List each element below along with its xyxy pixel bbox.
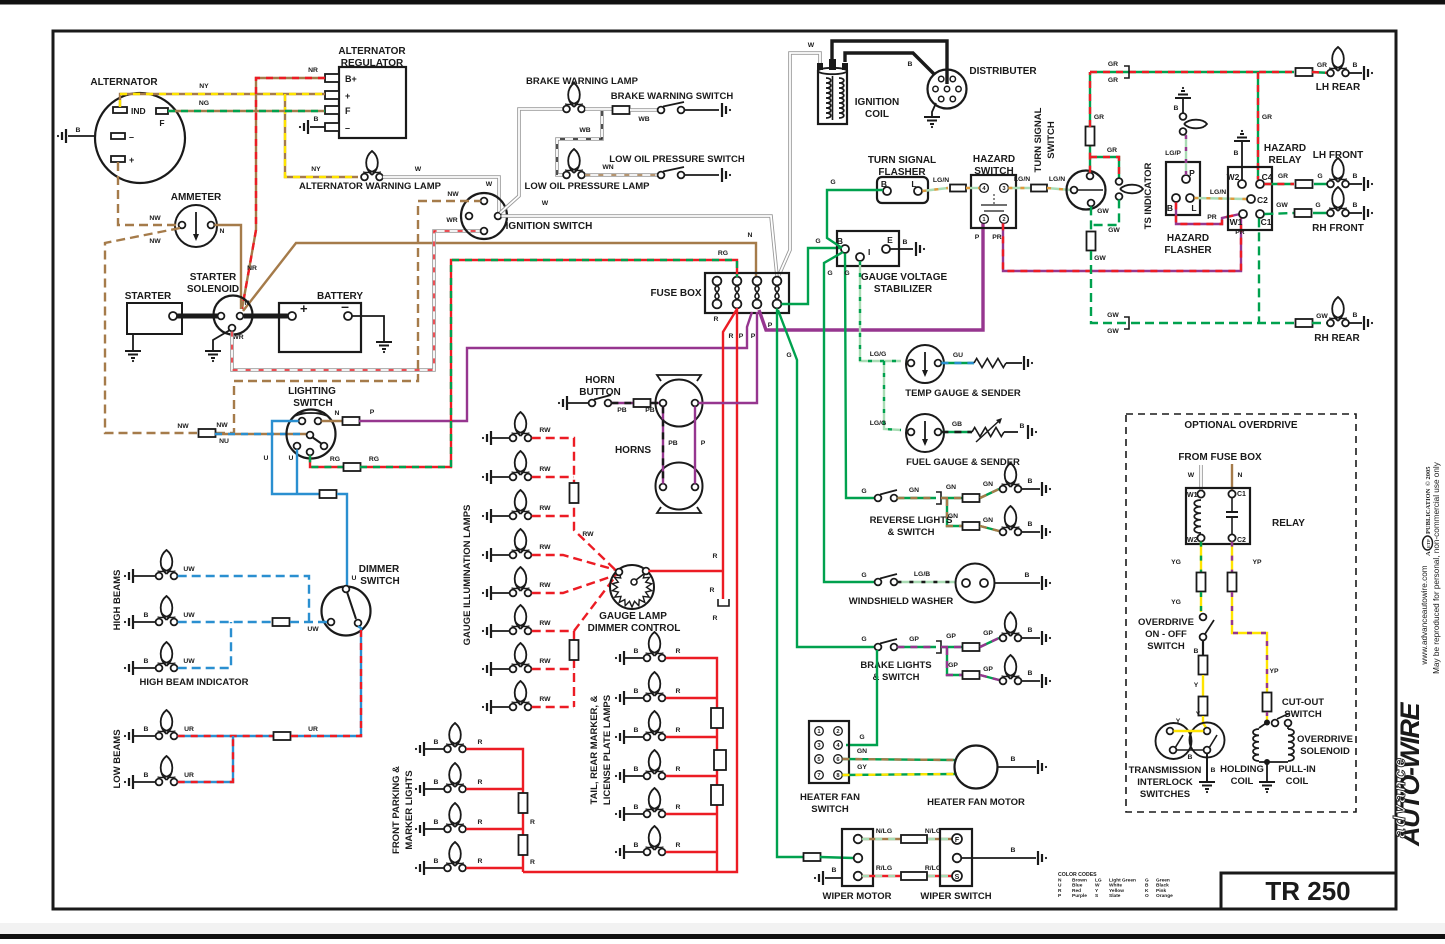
svg-text:R: R — [478, 739, 483, 746]
svg-text:GR: GR — [1108, 61, 1118, 68]
svg-text:LOW OIL PRESSURE LAMP: LOW OIL PRESSURE LAMP — [525, 181, 651, 192]
svg-text:COIL: COIL — [865, 109, 889, 120]
svg-text:SWITCH: SWITCH — [1284, 709, 1322, 720]
svg-text:LG/N: LG/N — [1014, 176, 1030, 183]
svg-text:HAZARD: HAZARD — [1167, 233, 1209, 244]
wire RG to fuse 2 — [360, 260, 737, 467]
svg-text:B: B — [1188, 754, 1193, 761]
svg-text:CUT-OUT: CUT-OUT — [1282, 697, 1324, 708]
svg-text:UW: UW — [183, 658, 195, 665]
svg-text:RG: RG — [369, 456, 379, 463]
svg-text:MARKER LIGHTS: MARKER LIGHTS — [404, 770, 415, 849]
svg-text:HORNS: HORNS — [615, 445, 651, 456]
gauge illumination lamp 5 — [487, 586, 491, 600]
publication note — [1423, 466, 1433, 556]
svg-text:RW: RW — [539, 505, 551, 512]
svg-text:WB: WB — [579, 127, 590, 134]
wire GN switch to lamps — [897, 497, 936, 499]
GP lamp 2 — [1005, 655, 1017, 679]
svg-text:F: F — [159, 118, 164, 128]
svg-text:GN: GN — [983, 481, 993, 488]
GP lamp 1 — [1005, 612, 1017, 636]
svg-text:G: G — [815, 238, 820, 245]
low beam lamp 2 — [129, 775, 133, 789]
svg-text:B: B — [1028, 627, 1033, 634]
svg-text:B: B — [634, 727, 639, 734]
hazard flasher — [1166, 162, 1200, 215]
svg-text:LG/N: LG/N — [933, 177, 949, 184]
wire R fuse 2 to dimmer control branch — [723, 309, 737, 599]
svg-text:P: P — [751, 333, 756, 340]
svg-text:R: R — [713, 615, 718, 622]
svg-text:B: B — [1167, 203, 1173, 213]
svg-text:TAIL, REAR MARKER, &: TAIL, REAR MARKER, & — [589, 695, 600, 804]
svg-text:Slate: Slate — [1109, 893, 1121, 899]
svg-text:C1: C1 — [1261, 217, 1272, 227]
svg-text:W2: W2 — [1187, 537, 1198, 544]
svg-text:F: F — [955, 837, 960, 844]
svg-text:N/LG: N/LG — [876, 828, 892, 835]
svg-text:GAUGE ILLUMINATION LAMPS: GAUGE ILLUMINATION LAMPS — [462, 505, 473, 646]
svg-text:RG: RG — [330, 456, 340, 463]
wire GR branch to TS indicator — [1090, 157, 1119, 178]
high beam lamp 1 — [129, 569, 133, 583]
wire RW lower bus to dimmer control — [532, 575, 617, 631]
connector on tail bus 1 — [711, 708, 723, 728]
svg-text:COLOR CODES: COLOR CODES — [1058, 872, 1097, 878]
svg-text:B: B — [1028, 521, 1033, 528]
GN lamp 1 — [1005, 463, 1017, 487]
svg-text:RW: RW — [539, 620, 551, 627]
cut-out switch — [1266, 712, 1268, 721]
svg-text:ETP: ETP — [1426, 539, 1431, 548]
fuel gauge — [906, 414, 944, 452]
svg-text:HORN: HORN — [585, 375, 614, 386]
brake warning switch — [663, 102, 684, 107]
wire R/LG wiper motor to switch — [862, 875, 900, 877]
alternator minus terminal — [111, 133, 125, 139]
svg-text:PB: PB — [617, 407, 627, 414]
hazard switch — [971, 175, 1016, 228]
wire YG relay W2 down to on-off switch — [1200, 542, 1202, 573]
svg-text:UR: UR — [184, 772, 194, 779]
svg-text:NY: NY — [199, 83, 209, 90]
svg-text:SWITCH: SWITCH — [811, 804, 849, 815]
svg-text:B: B — [434, 779, 439, 786]
alternator warning lamp — [366, 151, 378, 175]
svg-text:R/LG: R/LG — [925, 865, 941, 872]
wire WR solenoid to ignition switch — [232, 231, 481, 370]
wire R dimmer control output — [648, 570, 723, 572]
svg-text:R: R — [729, 333, 734, 340]
gauge illumination lamp 3 — [487, 509, 491, 523]
regulator ground wire B — [310, 126, 325, 128]
low oil pressure lamp — [568, 149, 580, 173]
svg-text:BRAKE WARNING LAMP: BRAKE WARNING LAMP — [526, 76, 639, 87]
svg-text:WR: WR — [232, 334, 243, 341]
svg-text:GAUGE VOLTAGE: GAUGE VOLTAGE — [861, 272, 948, 283]
svg-text:FROM FUSE BOX: FROM FUSE BOX — [1178, 452, 1262, 463]
svg-text:R: R — [478, 779, 483, 786]
svg-text:R: R — [478, 819, 483, 826]
wire N from fuse box to relay — [1231, 464, 1233, 490]
svg-text:W: W — [808, 42, 815, 49]
svg-text:R/LG: R/LG — [876, 865, 892, 872]
wire G stabilizer to washer switch — [824, 252, 875, 582]
alternator F terminal — [156, 108, 168, 114]
wire GW relay C1 to RH front — [1264, 213, 1294, 214]
wire GW TS indicator down — [1091, 199, 1119, 225]
front parking lamp 2 — [420, 782, 424, 796]
front parking lamp 4 — [420, 861, 424, 875]
svg-text:ON - OFF: ON - OFF — [1145, 629, 1187, 640]
svg-text:–: – — [345, 123, 350, 133]
svg-text:R: R — [676, 727, 681, 734]
svg-text:NG: NG — [199, 100, 209, 107]
wiper switch — [940, 829, 972, 886]
bracket connector — [718, 599, 729, 606]
temp sender resistor — [974, 359, 1006, 368]
svg-text:Red: Red — [1072, 888, 1081, 894]
gauge illumination lamp 1 — [487, 431, 491, 445]
svg-text:W: W — [542, 200, 549, 207]
wire GY heater switch to motor — [842, 774, 956, 775]
wire NG alternator F to regulator F — [168, 110, 325, 112]
wire G fuse 4 to brake switch — [778, 310, 875, 647]
distributer — [928, 70, 967, 109]
svg-text:COIL: COIL — [1286, 776, 1309, 787]
RH front lamp — [1332, 187, 1344, 211]
svg-text:UR: UR — [308, 726, 318, 733]
svg-text:UW: UW — [183, 612, 195, 619]
svg-text:HEATER FAN MOTOR: HEATER FAN MOTOR — [927, 797, 1025, 808]
svg-text:RW: RW — [539, 466, 551, 473]
svg-text:GW: GW — [1107, 328, 1119, 335]
wire GN heater switch to motor — [842, 759, 954, 760]
horn 1 — [657, 375, 701, 381]
svg-text:N: N — [335, 410, 340, 417]
svg-text:G: G — [861, 488, 866, 495]
svg-text:R: R — [530, 859, 535, 866]
gauge lamp dimmer control — [610, 565, 654, 609]
wire N ammeter to starter solenoid — [214, 225, 241, 309]
fuse 1 — [713, 284, 721, 302]
svg-text:FLASHER: FLASHER — [878, 167, 926, 178]
svg-text:REVERSE LIGHTS: REVERSE LIGHTS — [870, 515, 953, 526]
svg-text:HAZARD: HAZARD — [973, 154, 1015, 165]
svg-text:OPTIONAL OVERDRIVE: OPTIONAL OVERDRIVE — [1184, 420, 1297, 431]
thick cable solenoid to battery — [244, 314, 288, 319]
svg-text:LG/B: LG/B — [914, 571, 930, 578]
svg-text:L: L — [1191, 203, 1196, 213]
svg-text:WN: WN — [602, 164, 613, 171]
svg-text:DIMMER CONTROL: DIMMER CONTROL — [588, 623, 681, 634]
svg-text:LG/G: LG/G — [870, 420, 887, 427]
wire PR hazard switch to relay W1 — [1003, 218, 1241, 271]
svg-text:GP: GP — [948, 662, 958, 669]
wire U second terminal — [296, 449, 298, 494]
svg-text:P: P — [768, 322, 773, 329]
relay coil — [1194, 500, 1201, 533]
svg-text:G: G — [861, 636, 866, 643]
svg-text:NY: NY — [311, 166, 321, 173]
svg-text:P: P — [975, 234, 980, 241]
horn 2 — [657, 507, 701, 513]
wire B interlock to ground — [1206, 753, 1208, 781]
wire UR to dimmer switch — [291, 626, 361, 736]
svg-text:GN: GN — [946, 484, 956, 491]
alternator IND terminal — [113, 107, 127, 113]
wire U to dimmer switch — [337, 494, 347, 586]
svg-text:G: G — [1145, 878, 1149, 884]
svg-text:W1: W1 — [1230, 217, 1243, 227]
wire B coil to distributer center — [832, 41, 947, 84]
svg-text:PULL-IN: PULL-IN — [1278, 764, 1316, 775]
tail marker lamp 2 — [620, 691, 624, 705]
connector G wiper — [804, 853, 821, 861]
svg-text:GY: GY — [857, 764, 867, 771]
svg-text:FRONT PARKING &: FRONT PARKING & — [391, 766, 402, 854]
svg-text:R: R — [676, 648, 681, 655]
wire U lighting switch loop — [272, 421, 319, 494]
svg-text:B: B — [144, 612, 149, 619]
tail marker lamp 4 — [620, 769, 624, 783]
lighting switch — [287, 410, 336, 459]
relay capacitor — [1231, 498, 1233, 512]
svg-text:G: G — [830, 179, 835, 186]
wire UW indicator to bus — [178, 622, 231, 668]
windshield washer motor — [956, 564, 995, 603]
wire B to ground — [684, 109, 719, 111]
svg-text:RELAY: RELAY — [1272, 518, 1305, 529]
alternator regulator — [339, 67, 406, 138]
dimmer switch — [322, 587, 371, 636]
svg-text:C2: C2 — [1257, 195, 1268, 205]
svg-text:GW: GW — [1107, 312, 1119, 319]
svg-text:PB: PB — [668, 440, 678, 447]
gauge illumination lamp 4 — [487, 548, 491, 562]
wire GN to lamp 2 — [947, 499, 962, 526]
svg-text:SWITCH: SWITCH — [1147, 641, 1185, 652]
svg-text:RH FRONT: RH FRONT — [1312, 223, 1364, 234]
wire GR turn signal switch up to rear bus — [1089, 146, 1091, 173]
svg-text:FUEL GAUGE & SENDER: FUEL GAUGE & SENDER — [906, 457, 1020, 468]
hazard indicator lamp vertical — [1184, 120, 1207, 129]
svg-text:SWITCH: SWITCH — [360, 576, 399, 587]
alternator plus terminal — [111, 156, 125, 162]
wire Y between interlock switches — [1174, 730, 1204, 732]
solenoid ground — [1266, 762, 1268, 781]
svg-text:NW: NW — [149, 215, 161, 222]
svg-text:B: B — [1025, 572, 1030, 579]
svg-text:Orange: Orange — [1156, 893, 1173, 899]
wire W fuse box to ignition coil — [779, 53, 820, 275]
svg-text:COIL: COIL — [1231, 776, 1254, 787]
starter — [127, 303, 182, 334]
svg-text:PB: PB — [645, 407, 655, 414]
distributer ground — [932, 103, 936, 116]
wire B heater motor ground — [997, 766, 1036, 768]
fuel sender variable resistor — [972, 428, 1004, 437]
outer top border bar — [0, 0, 1445, 5]
svg-text:R: R — [713, 553, 718, 560]
tail marker lamp 5 — [620, 807, 624, 821]
svg-text:C2: C2 — [1237, 537, 1246, 544]
svg-text:WIPER MOTOR: WIPER MOTOR — [823, 891, 892, 902]
RH rear lamp — [1332, 297, 1344, 321]
RH rear feed — [1124, 317, 1129, 329]
wire N lighting switch to connector — [321, 420, 343, 422]
svg-text:G: G — [1315, 202, 1320, 209]
svg-text:B: B — [144, 658, 149, 665]
wire R fuse 2 to tail lamp bus — [523, 308, 737, 872]
svg-text:P: P — [739, 333, 744, 340]
svg-text:WINDSHIELD WASHER: WINDSHIELD WASHER — [849, 596, 954, 607]
svg-text:SWITCH: SWITCH — [293, 398, 332, 409]
GP switch — [880, 639, 897, 644]
svg-text:NW: NW — [447, 191, 459, 198]
alternator — [95, 93, 185, 183]
svg-text:R: R — [1058, 888, 1062, 894]
connector UW — [273, 618, 290, 626]
wire LG/N hazard switch to turn signal switch — [1008, 187, 1030, 189]
svg-text:W2: W2 — [1227, 172, 1240, 182]
svg-text:STARTER: STARTER — [190, 272, 237, 283]
svg-text:+: + — [300, 301, 308, 316]
svg-text:advance: advance — [1390, 756, 1409, 838]
svg-text:B: B — [434, 858, 439, 865]
wire RW upper bus to dimmer control — [532, 438, 617, 571]
svg-text:GW: GW — [1276, 202, 1288, 209]
svg-text:YG: YG — [1171, 559, 1181, 566]
wire PB horn button to horns — [611, 402, 633, 404]
GN lamp 2 — [1005, 506, 1017, 530]
svg-text:7: 7 — [817, 773, 820, 779]
connector UR — [274, 732, 291, 740]
svg-text:& SWITCH: & SWITCH — [873, 672, 920, 683]
svg-text:TRANSMISSION: TRANSMISSION — [1129, 765, 1202, 776]
svg-text:FLASHER: FLASHER — [1164, 245, 1212, 256]
gauge illumination lamp 6 — [487, 624, 491, 638]
gauge illumination lamp 7 — [487, 662, 491, 676]
svg-text:Purple: Purple — [1072, 893, 1087, 899]
svg-text:ALTERNATOR: ALTERNATOR — [338, 46, 406, 57]
svg-text:B: B — [434, 739, 439, 746]
svg-text:L: L — [911, 179, 916, 189]
svg-text:Black: Black — [1156, 883, 1169, 889]
svg-text:SWITCH: SWITCH — [1046, 121, 1057, 159]
svg-text:RG: RG — [718, 250, 728, 257]
ignition switch — [461, 193, 507, 239]
svg-text:May be reproduced for personal: May be reproduced for personal, non-comm… — [1432, 461, 1441, 674]
wire P between horns — [694, 406, 696, 483]
svg-text:B: B — [1145, 883, 1149, 889]
wire P fuse 3 to hazard switch — [759, 223, 983, 330]
svg-text:& SWITCH: & SWITCH — [888, 527, 935, 538]
connector PB — [634, 399, 651, 407]
TS indicator lamp — [1120, 185, 1143, 194]
wire NU connector to lighting switch — [215, 433, 306, 435]
connector on tail bus 3 — [711, 785, 723, 805]
svg-text:B: B — [1353, 62, 1358, 69]
svg-text:U: U — [352, 575, 357, 582]
wire Y down — [1202, 675, 1204, 697]
svg-text:Y: Y — [1176, 718, 1181, 725]
svg-text:GP: GP — [983, 666, 993, 673]
wire B indicator to ground — [1182, 99, 1184, 113]
svg-text:B: B — [908, 61, 913, 68]
svg-text:GN: GN — [857, 748, 867, 755]
solenoid ground — [213, 330, 230, 350]
svg-text:G: G — [1317, 173, 1322, 180]
regulator - terminal — [325, 123, 339, 131]
svg-text:GAUGE LAMP: GAUGE LAMP — [599, 611, 667, 622]
svg-text:+: + — [129, 155, 134, 165]
svg-text:N: N — [748, 232, 753, 239]
svg-text:–: – — [341, 298, 349, 314]
wire GU temp gauge to sender — [941, 362, 974, 364]
svg-text:P: P — [701, 440, 706, 447]
wire to brake warning switch — [630, 108, 658, 112]
wire LG/G stabilizer to temp gauge — [860, 261, 901, 361]
svg-text:HEATER FAN: HEATER FAN — [800, 792, 860, 803]
LH front lamp — [1332, 158, 1344, 182]
overdrive solenoid coils — [1259, 723, 1267, 729]
connector on RW bus — [570, 483, 579, 503]
regulator B+ terminal — [325, 74, 339, 82]
wire G brake switch junction to heater switch — [846, 650, 877, 745]
tail marker lamp 6 — [620, 845, 624, 859]
svg-text:ALTERNATOR WARNING LAMP: ALTERNATOR WARNING LAMP — [299, 181, 442, 192]
connector NW — [199, 429, 216, 437]
svg-text:HIGH BEAM INDICATOR: HIGH BEAM INDICATOR — [140, 677, 249, 688]
svg-text:Yellow: Yellow — [1109, 888, 1124, 894]
svg-text:LOW BEAMS: LOW BEAMS — [112, 729, 123, 788]
wire RW row5 to dimmer control — [532, 575, 616, 593]
svg-text:B: B — [1011, 847, 1016, 854]
wire G to wiper motor — [820, 857, 853, 858]
gauge illumination lamp 2 — [487, 470, 491, 484]
svg-text:OVERDRIVE: OVERDRIVE — [1297, 734, 1353, 745]
temp gauge — [906, 345, 944, 383]
svg-text:B: B — [1174, 105, 1179, 112]
overdrive on-off switch — [1200, 614, 1207, 621]
heater fan switch — [809, 721, 849, 783]
svg-text:+: + — [345, 91, 350, 101]
svg-text:C1: C1 — [1237, 491, 1246, 498]
regulator + terminal — [325, 91, 339, 99]
wire UR low beam 2 — [178, 736, 233, 782]
svg-text:LG/G: LG/G — [870, 351, 887, 358]
svg-text:N: N — [1238, 472, 1243, 479]
battery — [279, 303, 361, 352]
svg-text:GW: GW — [1094, 255, 1106, 262]
wire G fuse 4 to wiper motor — [777, 308, 804, 857]
wiper motor ground — [825, 877, 842, 879]
wire PB between horns — [662, 406, 664, 483]
starter ground — [132, 334, 134, 350]
battery ground wire — [352, 316, 384, 341]
svg-text:SOLENOID: SOLENOID — [187, 284, 239, 295]
svg-text:B: B — [903, 239, 908, 246]
svg-text:GR: GR — [1094, 114, 1104, 121]
wire P horn to fuse 3 — [698, 312, 757, 403]
svg-text:GW: GW — [1316, 313, 1328, 320]
svg-text:LG: LG — [1095, 878, 1102, 884]
svg-text:B: B — [1353, 173, 1358, 180]
svg-text:B+: B+ — [345, 74, 357, 84]
svg-text:LG/P: LG/P — [1165, 150, 1181, 157]
